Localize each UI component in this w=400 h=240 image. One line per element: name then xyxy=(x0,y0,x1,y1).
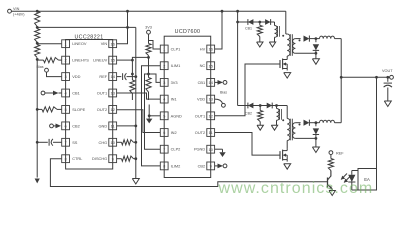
arrow input return xyxy=(35,179,40,184)
resistor R3 input divider xyxy=(35,45,40,58)
svg-text:OUT1: OUT1 xyxy=(97,90,107,95)
wire return stub 2 xyxy=(315,138,317,147)
U1 pin 10 CHG xyxy=(99,138,117,146)
svg-text:LINEHYS: LINEHYS xyxy=(72,58,89,63)
U2 pin 15 NC xyxy=(200,62,215,70)
U1 pin 3 VDD xyxy=(62,73,81,81)
winding aux T2 xyxy=(276,106,278,109)
wire PGND xyxy=(215,148,223,150)
phase dot T2 primary xyxy=(282,119,284,121)
node branch ILIM xyxy=(131,73,134,76)
wire VIN-sense vertical xyxy=(135,27,137,178)
U2 pin 16 HV xyxy=(200,45,215,53)
svg-text:ILIM2: ILIM2 xyxy=(171,163,181,168)
wire HV to +48 xyxy=(215,11,222,49)
diode D7 rectifier 2 xyxy=(304,120,316,126)
svg-text:CTRL: CTRL xyxy=(72,156,83,161)
svg-text:IN2: IN2 xyxy=(171,130,177,135)
svg-text:VOUT: VOUT xyxy=(382,69,393,73)
svg-text:CLP2: CLP2 xyxy=(171,147,181,152)
wire clamp row 2 xyxy=(238,105,288,107)
svg-text:14: 14 xyxy=(110,74,115,79)
svg-text:13: 13 xyxy=(208,97,213,102)
svg-text:AGND: AGND xyxy=(171,113,182,118)
ground Q1 source xyxy=(284,73,291,79)
capacitor C3 output xyxy=(387,77,389,82)
diode D9 opto LED xyxy=(351,171,353,175)
ground AGND arrow xyxy=(146,119,152,124)
ground clamp 1b xyxy=(269,42,275,47)
U1 pin 12 OUT2 xyxy=(97,106,117,114)
wire CLP1 tap xyxy=(149,41,160,50)
ground freewheel 1 xyxy=(312,59,319,65)
wire VOUT rail xyxy=(341,76,389,78)
transistor Q2 MOSFET xyxy=(286,141,288,149)
opto light arrows xyxy=(341,174,347,180)
wire return stub 1 xyxy=(315,53,317,59)
svg-text:Bias: Bias xyxy=(220,90,227,94)
svg-text:3V3: 3V3 xyxy=(171,80,178,85)
node rail SLOPE xyxy=(36,108,39,111)
svg-text:10: 10 xyxy=(208,147,213,152)
svg-text:13: 13 xyxy=(110,91,115,96)
wire feedback sense xyxy=(376,77,378,168)
resistor R6 CHG xyxy=(117,141,122,143)
svg-text:16: 16 xyxy=(208,47,213,52)
diode D2 clamp xyxy=(265,19,271,25)
svg-text:HV: HV xyxy=(200,47,206,52)
U1 pin 11 GND xyxy=(99,122,117,130)
transformer T1 primary xyxy=(287,34,290,56)
wire GND to sense xyxy=(117,125,136,127)
node GND sense xyxy=(134,125,137,128)
node VIN pin16 stub xyxy=(126,26,129,29)
U2 pin 6 IN2 xyxy=(160,129,176,137)
svg-text:OUT2: OUT2 xyxy=(195,130,205,135)
wire primary feed 1 xyxy=(285,11,287,34)
wire output join vertical xyxy=(340,39,342,123)
svg-text:CB2: CB2 xyxy=(72,123,80,128)
U2 pin 13 VDD xyxy=(197,95,215,103)
node divider tap3 xyxy=(36,58,39,61)
svg-text:UCD7600: UCD7600 xyxy=(175,29,201,35)
U1 pin 13 OUT1 xyxy=(97,89,117,97)
wire REF to opto collector xyxy=(330,171,332,177)
U1 pin 14 REF xyxy=(99,73,116,81)
wire secondary 1 top xyxy=(295,38,300,40)
svg-text:SS: SS xyxy=(72,140,78,145)
svg-text:VDD: VDD xyxy=(72,74,80,79)
wire secondary 1 return xyxy=(295,52,316,54)
node clamp row 1 xyxy=(236,21,239,24)
node divider tap1 xyxy=(36,26,39,29)
svg-text:ILIM1: ILIM1 xyxy=(171,63,181,68)
wire pin16 VIN stub xyxy=(117,11,128,44)
inductor L2 output 2 xyxy=(316,122,320,124)
svg-text:10: 10 xyxy=(110,140,115,145)
node return 1 xyxy=(315,52,318,55)
wire CLP2 tap xyxy=(145,74,161,149)
Bias terminal at VDD pin3 xyxy=(37,65,62,77)
U1 pin 7 SS xyxy=(62,138,78,146)
wire 3V3 tail xyxy=(148,92,150,100)
terminal CB2 pin9 U2 xyxy=(215,164,227,169)
node VOUT cap xyxy=(386,76,389,79)
U1 pin 4 CB1 xyxy=(62,89,80,97)
ground output cap xyxy=(384,101,391,107)
ground clamp 2b xyxy=(271,125,277,130)
svg-text:CB1: CB1 xyxy=(72,90,80,95)
wire LINEUV to divider xyxy=(117,59,133,61)
U1 pin 5 SLOPE xyxy=(62,106,86,114)
resistor R10 3V3 lower xyxy=(146,78,151,93)
wire clamp feed vertical xyxy=(237,11,239,105)
diode D4 freewheel 1 xyxy=(315,39,317,43)
wire tap2 to LINEOV pin1 xyxy=(37,43,61,45)
svg-text:LINEOV: LINEOV xyxy=(72,41,87,46)
wire AGND vertical xyxy=(148,105,150,119)
wire OUT2 to Q2 gate xyxy=(215,133,280,156)
U2 pin 7 CLP2 xyxy=(160,145,180,153)
U1 pin 6 CB2 xyxy=(62,122,80,130)
svg-text:REF: REF xyxy=(99,74,107,79)
svg-text:www.cntronics.com: www.cntronics.com xyxy=(218,180,374,197)
svg-text:14: 14 xyxy=(208,80,213,85)
node REF/sense xyxy=(134,75,137,78)
node 3V3 divider xyxy=(147,56,150,59)
wire primary feed 2 xyxy=(286,106,288,119)
wire AGND to pin5 xyxy=(149,115,160,117)
node return 2 xyxy=(315,137,318,140)
svg-text:VIN: VIN xyxy=(101,41,108,46)
svg-text:CB2: CB2 xyxy=(198,163,206,168)
diode D8 freewheel 2 xyxy=(315,123,317,127)
diode D1 clamp xyxy=(248,19,254,25)
svg-text:OUT2: OUT2 xyxy=(97,107,107,112)
inductor L1 output 1 xyxy=(316,38,320,40)
U2 pin 14 CB1 xyxy=(198,79,215,87)
transformer T2 core xyxy=(289,119,291,141)
wire divider branch left xyxy=(132,57,148,60)
node AGND xyxy=(148,114,151,117)
resistor R13 REF xyxy=(328,159,333,171)
capacitor C1 soft-start SS xyxy=(37,139,61,146)
wire CTRL feedback down xyxy=(50,159,327,187)
wire REF down xyxy=(330,155,332,159)
U2 pin 5 AGND xyxy=(160,112,182,120)
node VIN pin16 top xyxy=(126,10,129,13)
svg-text:12: 12 xyxy=(208,113,213,118)
transformer T2 secondary xyxy=(293,123,296,139)
diode D6 clamp 2 xyxy=(267,103,273,109)
U1 pin 1 LINEOV xyxy=(62,40,87,48)
terminal Bias VDD pin13 U2 xyxy=(215,90,227,107)
svg-text:REF: REF xyxy=(336,151,344,155)
core aux T1 xyxy=(277,26,279,37)
svg-text:NC: NC xyxy=(200,63,206,68)
svg-text:Bias: Bias xyxy=(37,65,44,69)
ground below sense rail xyxy=(132,179,139,185)
wire tap1 to VIN-sense xyxy=(37,26,136,28)
wire OUT1 to IN1 xyxy=(117,93,160,99)
transistor Q1 MOSFET xyxy=(286,56,288,58)
VIN input terminal xyxy=(8,7,26,16)
U2 pin 4 IN1 xyxy=(160,95,176,103)
svg-text:12: 12 xyxy=(110,107,115,112)
ground PGND arrow xyxy=(219,152,225,157)
core aux T2 xyxy=(279,109,281,120)
transformer T1 core xyxy=(289,34,291,56)
svg-text:CHG: CHG xyxy=(99,140,108,145)
U1 pin 15 LINEUV xyxy=(93,56,116,64)
op-amp U2 UCD7600 body xyxy=(164,29,211,177)
U2 pin 2 ILIM1 xyxy=(160,62,180,70)
phase dot T1 secondary xyxy=(299,39,301,41)
node 3V3 lower xyxy=(147,73,150,76)
wire LED to EA xyxy=(352,170,358,172)
U2 pin 9 CB2 xyxy=(198,162,215,170)
op-amp U1 UCC28221 body xyxy=(66,35,113,169)
U2 pin 12 OUT1 xyxy=(195,112,215,120)
node clamp mid 2 xyxy=(259,104,262,107)
node HV rail xyxy=(221,10,224,13)
wire branch tail xyxy=(131,94,133,101)
node clamp feed xyxy=(236,10,239,13)
resistor R11 clamp xyxy=(259,22,261,25)
node CHG xyxy=(134,141,137,144)
wire OUT2 to IN2 xyxy=(117,110,160,133)
resistor R12 clamp 2 xyxy=(259,106,261,111)
node divider tap2 xyxy=(36,42,39,45)
svg-text:SLOPE: SLOPE xyxy=(72,107,85,112)
wire clamp row 1 xyxy=(238,21,275,23)
svg-text:PGND: PGND xyxy=(194,147,205,152)
wire 3V3 to pin3 xyxy=(149,74,161,82)
svg-text:CB1: CB1 xyxy=(245,27,252,31)
svg-text:GND: GND xyxy=(99,123,108,128)
U2 pin 11 OUT2 xyxy=(195,129,215,137)
wire secondary 2 return xyxy=(295,137,316,139)
wire ILIM1 to ILIM2 rail xyxy=(142,66,161,166)
node DISCHG xyxy=(134,157,137,160)
ground Q2 source xyxy=(284,164,291,170)
phase dot T2 secondary xyxy=(299,124,301,126)
resistor R5 SLOPE xyxy=(37,108,42,110)
transistor Q3 opto phototransistor xyxy=(327,178,329,188)
svg-text:16: 16 xyxy=(110,41,115,46)
node clamp mid 1 xyxy=(258,21,261,24)
svg-text:VDD: VDD xyxy=(197,97,205,102)
svg-text:DISCHG: DISCHG xyxy=(92,156,107,161)
wire branch mid xyxy=(131,60,133,80)
REF terminal xyxy=(329,151,344,156)
terminal CB1 pin14 U2 xyxy=(215,80,227,85)
svg-text:15: 15 xyxy=(208,63,213,68)
node rect 1 xyxy=(315,37,318,40)
node output rail xyxy=(340,76,343,79)
resistor R2 input divider xyxy=(35,29,40,43)
resistor R1 input divider top xyxy=(35,11,40,26)
wire OUT1 to Q1 gate xyxy=(215,64,280,116)
svg-text:3V3: 3V3 xyxy=(145,25,152,29)
wire secondary 2 top xyxy=(295,122,300,124)
wire divider mid xyxy=(148,56,150,78)
resistor R4 LINEHYS xyxy=(37,59,43,61)
svg-text:VIN: VIN xyxy=(13,7,20,11)
node rail SS xyxy=(36,141,39,144)
winding aux T1 xyxy=(274,22,276,26)
VOUT terminal xyxy=(382,69,393,79)
diode D5 clamp 2 xyxy=(248,103,254,109)
node LINEUV branch xyxy=(131,59,134,62)
svg-text:UCC28221: UCC28221 xyxy=(74,35,103,41)
U2 pin 3 3V3 xyxy=(160,79,177,87)
transformer T1 secondary xyxy=(293,39,296,54)
phase dot T1 primary xyxy=(282,35,284,37)
resistor R7 DISCHG xyxy=(117,158,122,160)
wire 3V3 down xyxy=(148,34,150,43)
ground opto xyxy=(329,191,335,196)
node rect 2 xyxy=(315,121,318,124)
resistor R9 branch xyxy=(130,80,135,94)
U2 pin 8 ILIM2 xyxy=(160,162,180,170)
resistor R8 3V3 divider xyxy=(146,44,151,56)
svg-text:IN1: IN1 xyxy=(171,97,177,102)
node top rail / divider xyxy=(36,10,39,13)
transformer T2 primary xyxy=(287,119,290,141)
svg-text:CB1: CB1 xyxy=(198,80,206,85)
U2 pin 1 CLP1 xyxy=(160,45,180,53)
ground clamp 1a xyxy=(257,42,263,47)
3V3 terminal xyxy=(145,25,152,34)
wire +48V top rail xyxy=(11,10,285,12)
U1 pin 9 DISCHG xyxy=(92,155,117,163)
terminal CB1 pin4 xyxy=(41,91,61,96)
svg-text:15: 15 xyxy=(110,58,115,63)
U2 pin 10 PGND xyxy=(194,145,215,153)
svg-text:OUT1: OUT1 xyxy=(195,113,205,118)
diode D3 rectifier 1 xyxy=(304,36,316,42)
ground clamp 2a xyxy=(257,125,263,130)
svg-text:CLP1: CLP1 xyxy=(171,47,181,52)
terminal CB2 pin6 xyxy=(50,124,61,129)
node aux 2 xyxy=(275,104,278,107)
svg-text:(+48V): (+48V) xyxy=(13,13,25,17)
U1 pin 8 CTRL xyxy=(62,155,83,163)
ground freewheel 2 xyxy=(312,147,319,153)
svg-text:LINEUV: LINEUV xyxy=(93,58,107,63)
U1 pin 2 LINEHYS xyxy=(62,56,90,64)
capacitor C2 REF xyxy=(117,73,136,80)
svg-text:CB2: CB2 xyxy=(245,111,252,115)
wire left rail lower xyxy=(36,59,38,177)
op-amp U3 EA error amp xyxy=(358,169,377,191)
U1 pin 16 VIN xyxy=(101,40,117,48)
node feedback tap xyxy=(375,76,378,79)
